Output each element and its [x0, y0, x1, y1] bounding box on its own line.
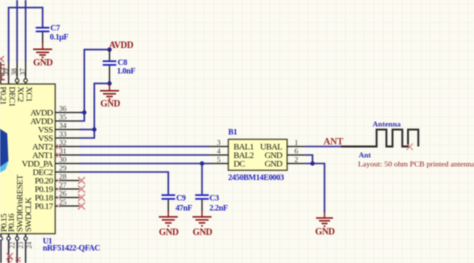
svg-text:47nF: 47nF	[176, 203, 193, 212]
junction pin36/AVDD	[82, 110, 86, 114]
U1 top pin numbers 39 38 37	[2, 68, 27, 76]
svg-text:0.1µF: 0.1µF	[50, 32, 69, 41]
wire AVDD to pins 36/35	[80, 50, 110, 121]
balun right pin stubs 1 6 2	[287, 147, 305, 164]
svg-text:23: 23	[18, 241, 25, 248]
ground under balun	[316, 218, 333, 226]
capacitor C8	[103, 50, 117, 84]
bottom left clipped wires	[7, 253, 14, 260]
svg-text:P0.17: P0.17	[35, 201, 54, 211]
svg-text:22: 22	[9, 241, 16, 248]
svg-text:Layout: 50 ohm PCB printed ant: Layout: 50 ohm PCB printed antenna	[358, 159, 474, 168]
wire ANT2 to balun BAL1	[80, 146, 211, 148]
ground symbol under C8	[100, 83, 119, 99]
svg-text:SWDCLK: SWDCLK	[23, 197, 33, 232]
balun right pin numbers	[294, 138, 298, 164]
capacitor C7	[36, 28, 50, 50]
svg-text:ANT: ANT	[324, 138, 345, 148]
wire DEC1 to C7	[9, 8, 43, 62]
IC U1 nRF51422-QFAC body	[0, 84, 55, 234]
svg-text:AVDD: AVDD	[109, 40, 134, 50]
junction C8 bottom / GND / VSS	[107, 81, 111, 85]
small crosses left side P0 pins	[57, 179, 60, 208]
wire XC2 up	[16, 0, 18, 62]
XC1 pin bubble	[24, 79, 28, 83]
svg-text:GND: GND	[33, 57, 53, 67]
svg-text:38: 38	[10, 68, 18, 76]
svg-text:XC2: XC2	[16, 87, 26, 102]
svg-text:B1: B1	[228, 128, 237, 137]
antenna Ant meander	[341, 130, 418, 147]
U1 right-side pin numbers	[59, 104, 67, 207]
svg-text:SWDCLK: SWDCLK	[14, 256, 22, 263]
U1 bottom pin numbers	[9, 241, 33, 248]
svg-text:GND: GND	[100, 99, 120, 109]
ground symbol under C7	[33, 49, 52, 57]
wire pin34 to VSS vertical	[80, 129, 95, 131]
capacitor C9	[162, 195, 176, 217]
U1 right-side pin stubs (pins 36..25)	[55, 113, 79, 207]
svg-text:1.0nF: 1.0nF	[117, 67, 136, 76]
no-ERC cross pin31	[56, 153, 61, 158]
junction pin6/pin2	[310, 161, 314, 165]
svg-text:2: 2	[294, 155, 298, 164]
svg-text:GND: GND	[193, 227, 213, 237]
svg-text:P0.21: P0.21	[0, 87, 9, 105]
balun left pin stubs 3 4 5	[210, 147, 228, 164]
svg-text:C7: C7	[50, 23, 60, 32]
balun pin names	[234, 141, 254, 168]
AVDD power port	[107, 40, 134, 52]
svg-text:5: 5	[217, 155, 221, 164]
wire C3 tap	[201, 164, 203, 195]
wire ANT1 to balun BAL2	[80, 154, 211, 156]
wire balun pin6 down	[305, 155, 313, 164]
svg-text:C9: C9	[176, 193, 186, 202]
wire VDD_PA to balun DC	[80, 163, 211, 165]
balun B1 body	[228, 139, 287, 170]
svg-text:P0.21: P0.21	[0, 63, 7, 81]
XC2 pin bubble	[15, 79, 19, 83]
svg-text:nRF51422-QFAC: nRF51422-QFAC	[43, 244, 101, 253]
no-ERC cross at antenna	[407, 144, 414, 151]
left edge clipped net label	[0, 63, 7, 81]
svg-text:37: 37	[19, 68, 27, 76]
svg-text:Antenna: Antenna	[373, 120, 401, 129]
U1 bottom pin stubs with bubbles (22 P0.16, 23 SWDIO, 24 SWDCLK)	[1, 234, 26, 263]
U1 top pin names DEC1 XC2 XC1 (vertical)	[0, 87, 34, 107]
wire C8 bottom to VSS pins 34/33	[80, 83, 110, 138]
junction VDD_PA / C3	[200, 161, 204, 165]
wire balun pin1 to antenna (ANT net)	[305, 146, 341, 148]
U1 chip logo wedge	[0, 129, 8, 173]
svg-text:XC1: XC1	[25, 87, 35, 102]
wire pin36 to AVDD vertical	[80, 112, 85, 114]
left edge no-ERC cross	[0, 56, 4, 62]
svg-text:2450BM14E0003: 2450BM14E0003	[228, 173, 284, 182]
ground under C3	[193, 217, 212, 226]
junction pin34/VSS	[92, 127, 96, 131]
svg-text:DEC1: DEC1	[8, 87, 18, 107]
svg-text:DC: DC	[234, 158, 246, 168]
capacitor C3	[195, 195, 209, 217]
bottom pin bubbles	[0, 237, 27, 240]
svg-text:GND: GND	[265, 158, 283, 168]
U1 top pin stubs (39 DEC1, 38 XC2, 37 XC1)	[1, 62, 26, 84]
bottom clipped net labels	[6, 256, 23, 263]
svg-text:SWDIO: SWDIO	[6, 257, 14, 263]
svg-text:C3: C3	[209, 193, 219, 202]
no-ERC crosses at P0.20..P0.17 pin ends	[78, 177, 85, 210]
wire DEC2 to C9	[80, 172, 169, 194]
U1 right-side pin names	[22, 108, 54, 212]
svg-text:Ant: Ant	[359, 150, 372, 159]
svg-text:24: 24	[26, 241, 33, 248]
svg-text:2.2nF: 2.2nF	[209, 203, 228, 212]
svg-text:GND: GND	[159, 227, 179, 237]
no-ERC cross pin32	[56, 144, 61, 149]
ground under C9	[159, 217, 178, 226]
wire XC1 up	[25, 0, 27, 62]
wire balun pin2 to GND	[305, 164, 325, 213]
svg-text:GND: GND	[315, 227, 335, 237]
U1 bottom pin names vertical	[0, 174, 33, 232]
balun left pin numbers	[217, 138, 221, 164]
